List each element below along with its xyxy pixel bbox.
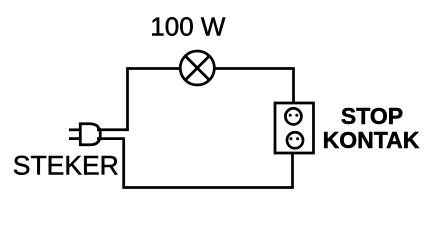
plug P1 body: [80, 124, 100, 145]
socket X1 upper receptacle: [285, 108, 301, 124]
lamp L1 circle: [180, 51, 214, 85]
plug P1 prong upper: [69, 128, 81, 131]
lamp L1 cross: [185, 56, 209, 80]
svg-text:STEKER: STEKER: [13, 151, 119, 181]
svg-text:KONTAK: KONTAK: [323, 127, 420, 153]
svg-text:STOP: STOP: [341, 103, 403, 129]
socket X1 outline: [275, 103, 314, 153]
wire plug top cord: [97, 128, 129, 131]
wire top rail: [128, 69, 294, 132]
socket X1 lower receptacle: [287, 132, 303, 148]
svg-text:100 W: 100 W: [150, 11, 226, 41]
wire bottom rail: [124, 139, 293, 188]
wire plug bottom cord: [97, 137, 125, 140]
plug P1 prong lower: [69, 137, 81, 140]
